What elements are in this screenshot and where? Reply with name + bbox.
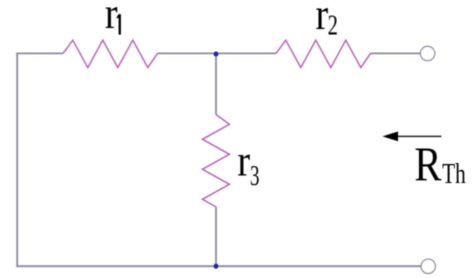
svg-text:2: 2: [328, 9, 338, 41]
svg-text:r: r: [105, 0, 118, 38]
svg-text:r: r: [237, 137, 250, 186]
svg-text:R: R: [414, 136, 441, 191]
svg-text:3: 3: [250, 160, 260, 192]
svg-text:r: r: [316, 0, 329, 39]
svg-text:Th: Th: [442, 158, 466, 190]
